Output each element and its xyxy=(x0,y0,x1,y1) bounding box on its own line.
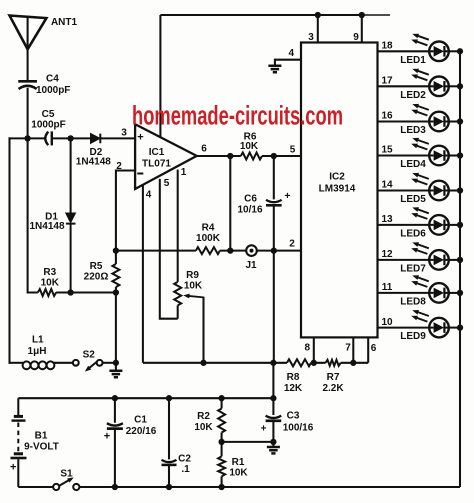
svg-text:+: + xyxy=(104,431,110,443)
capacitor C1 xyxy=(114,398,116,487)
svg-text:13: 13 xyxy=(381,214,393,225)
wire LED9 to right rail xyxy=(449,327,460,329)
node LED9 rail junction xyxy=(457,324,463,330)
node S2 ground junction xyxy=(113,360,119,366)
wire R1/R2 junction to C3 xyxy=(222,441,274,443)
potentiometer R9 xyxy=(174,282,181,305)
wire LED8 to right rail xyxy=(449,292,460,294)
svg-text:10/16: 10/16 xyxy=(237,205,262,216)
wire IC2 pin9 stub xyxy=(361,15,363,43)
svg-text:C5: C5 xyxy=(42,109,55,120)
svg-text:R4: R4 xyxy=(202,223,215,234)
svg-text:C3: C3 xyxy=(287,411,300,422)
node R9 wiper junction xyxy=(200,360,206,366)
svg-text:1N4148: 1N4148 xyxy=(76,157,111,168)
resistor R6 xyxy=(241,153,262,160)
svg-text:R9: R9 xyxy=(186,270,199,281)
node LED6 rail junction xyxy=(457,222,463,228)
svg-text:1μH: 1μH xyxy=(28,346,47,357)
capacitor C2 xyxy=(168,398,170,487)
wire op-amp V+ (pin 7) xyxy=(159,15,161,138)
node R3/R5 junction xyxy=(113,289,119,295)
svg-text:10K: 10K xyxy=(194,422,213,433)
svg-text:1000pF: 1000pF xyxy=(36,85,70,96)
node C6 top junction xyxy=(271,153,277,159)
svg-text:2: 2 xyxy=(289,239,295,250)
capacitor C5 xyxy=(45,133,47,145)
svg-text:4: 4 xyxy=(289,48,295,59)
ground below C3 xyxy=(267,447,280,453)
node LED8 rail junction xyxy=(457,290,463,296)
node pin8 junction xyxy=(311,360,317,366)
svg-text:S2: S2 xyxy=(83,350,96,361)
node C3 bottom junction xyxy=(270,439,276,445)
svg-text:220Ω: 220Ω xyxy=(84,272,109,283)
svg-text:+: + xyxy=(284,190,290,202)
node output junction xyxy=(227,153,233,159)
svg-text:homemade-circuits.com: homemade-circuits.com xyxy=(132,101,343,131)
svg-text:C4: C4 xyxy=(46,74,59,85)
svg-text:TL071: TL071 xyxy=(142,159,171,170)
svg-text:+: + xyxy=(137,132,143,144)
svg-text:B1: B1 xyxy=(35,431,48,442)
svg-text:J1: J1 xyxy=(245,260,257,271)
LED LED8 xyxy=(378,292,430,294)
svg-text:R1: R1 xyxy=(232,457,245,468)
wire op-amp pin5 xyxy=(160,179,178,319)
node C1 top xyxy=(112,395,118,401)
svg-text:L1: L1 xyxy=(32,335,44,346)
node pin7 junction xyxy=(350,360,356,366)
wire LED2 to right rail xyxy=(449,85,460,87)
svg-text:R8: R8 xyxy=(287,372,300,383)
node pin9 bus junction xyxy=(359,12,365,18)
wire R5 column to ground rail xyxy=(115,293,117,363)
diode D1 xyxy=(70,138,72,212)
wire S2 to ground node xyxy=(103,362,116,364)
svg-text:S1: S1 xyxy=(60,469,73,480)
svg-text:17: 17 xyxy=(381,76,393,87)
wire bottom bus xyxy=(18,486,460,488)
left rail wire xyxy=(8,138,10,362)
svg-text:14: 14 xyxy=(381,180,393,191)
svg-text:LED5: LED5 xyxy=(400,194,426,205)
svg-text:C2: C2 xyxy=(178,454,191,465)
svg-text:LM3914: LM3914 xyxy=(319,184,356,195)
node LED5 rail junction xyxy=(457,187,463,193)
svg-text:10K: 10K xyxy=(229,468,248,479)
node LED4 rail junction xyxy=(457,152,463,158)
svg-text:IC2: IC2 xyxy=(329,172,345,183)
LED LED6 xyxy=(378,224,430,226)
resistor R7 xyxy=(326,360,341,366)
wire LED1 to right rail xyxy=(449,50,460,52)
svg-text:6: 6 xyxy=(201,144,207,155)
node top bus junction xyxy=(315,12,321,18)
capacitor C3 xyxy=(266,416,282,418)
svg-text:LED3: LED3 xyxy=(400,125,426,136)
wire LED5 to right rail xyxy=(449,189,460,191)
svg-text:3: 3 xyxy=(121,128,127,139)
svg-text:8: 8 xyxy=(305,343,311,354)
node C3 bus junction xyxy=(270,395,276,401)
op-amp IC1 TL071 xyxy=(135,124,197,189)
wire LED3 to right rail xyxy=(449,120,460,122)
wire IC2 pin4 stub xyxy=(275,60,301,65)
svg-text:1000pF: 1000pF xyxy=(31,120,65,131)
svg-text:12: 12 xyxy=(381,249,393,260)
svg-text:11: 11 xyxy=(382,282,393,293)
svg-text:5: 5 xyxy=(290,145,296,156)
svg-text:R2: R2 xyxy=(197,411,210,422)
svg-text:100K: 100K xyxy=(196,233,221,244)
connector J1 xyxy=(246,245,257,256)
wire input node xyxy=(10,137,91,139)
node C2 top xyxy=(166,395,172,401)
svg-text:ANT1: ANT1 xyxy=(51,17,78,28)
LED LED2 xyxy=(378,85,430,87)
svg-text:LED9: LED9 xyxy=(400,331,426,342)
node C1 bottom xyxy=(112,484,118,490)
LED LED9 xyxy=(378,327,430,329)
switch S1 xyxy=(53,484,59,490)
wire IC2 pin7 stub xyxy=(352,337,354,362)
wire pin2 ground column xyxy=(273,251,275,363)
resistor R4 xyxy=(196,247,220,254)
svg-text:C1: C1 xyxy=(134,415,147,426)
node R3/D1 junction xyxy=(67,289,73,295)
wire C3 column xyxy=(272,363,274,446)
node LED2 rail junction xyxy=(457,83,463,89)
svg-text:9-VOLT: 9-VOLT xyxy=(24,442,59,453)
svg-text:1N4148: 1N4148 xyxy=(29,221,64,232)
wire IC2 pin3 stub xyxy=(317,15,319,43)
svg-text:5: 5 xyxy=(164,178,170,189)
LED LED5 xyxy=(378,189,430,191)
LED LED4 xyxy=(378,154,430,156)
svg-text:10K: 10K xyxy=(184,281,203,292)
LED LED7 xyxy=(378,259,430,261)
wire IC2 pin8 stub xyxy=(313,337,315,362)
wire top supply bus xyxy=(160,14,361,16)
svg-text:R7: R7 xyxy=(327,372,340,383)
svg-text:100/16: 100/16 xyxy=(283,423,314,434)
svg-text:+: + xyxy=(261,424,267,435)
svg-text:10: 10 xyxy=(381,317,393,328)
resistor R3 xyxy=(38,289,56,296)
ground at IC2 pin4 xyxy=(268,66,281,72)
LED LED3 xyxy=(378,120,430,122)
ground below S2 xyxy=(115,363,117,370)
svg-text:16: 16 xyxy=(381,111,393,122)
node R2/R1 junction xyxy=(218,439,224,445)
svg-text:.1: .1 xyxy=(181,464,190,475)
inductor L1 xyxy=(10,362,20,364)
svg-text:3: 3 xyxy=(308,32,314,43)
svg-text:+: + xyxy=(10,462,16,474)
svg-text:IC1: IC1 xyxy=(149,147,165,158)
svg-text:2.2K: 2.2K xyxy=(322,383,344,394)
switch S2 xyxy=(73,360,79,366)
wire right rail xyxy=(459,51,461,487)
node LED1 rail junction xyxy=(457,48,463,54)
antenna ANT1 xyxy=(10,16,47,50)
svg-text:R3: R3 xyxy=(43,267,56,278)
svg-text:C6: C6 xyxy=(244,194,257,205)
svg-text:10K: 10K xyxy=(41,278,60,289)
node: C5 left junction xyxy=(24,135,30,141)
node R4/output junction xyxy=(227,247,233,253)
node LED7 rail junction xyxy=(457,257,463,263)
resistor R8 xyxy=(287,359,311,366)
node R1 bottom xyxy=(218,484,224,490)
wire R3 line xyxy=(28,291,116,293)
svg-text:LED7: LED7 xyxy=(400,263,426,274)
wire ground rail xyxy=(143,337,368,362)
node R4 left junction xyxy=(113,247,119,253)
svg-text:LED1: LED1 xyxy=(400,55,426,66)
IC U2 LM3914 body xyxy=(301,43,378,338)
wire op-amp output pin6 xyxy=(195,155,301,157)
svg-text:12K: 12K xyxy=(284,383,303,394)
node C2 bottom xyxy=(166,484,172,490)
node LED3 rail junction xyxy=(457,118,463,124)
node J1/C6 junction xyxy=(271,247,277,253)
svg-text:18: 18 xyxy=(381,41,393,52)
svg-text:1: 1 xyxy=(181,167,187,178)
svg-text:220/16: 220/16 xyxy=(126,426,157,437)
LED LED1 xyxy=(378,50,430,52)
svg-text:LED2: LED2 xyxy=(400,90,426,101)
wire LED7 to right rail xyxy=(449,259,460,261)
wire output to pin2 net xyxy=(229,156,231,251)
svg-text:R5: R5 xyxy=(90,261,103,272)
battery B1 xyxy=(17,398,19,415)
resistor R1 xyxy=(221,442,223,487)
svg-text:15: 15 xyxy=(381,145,393,156)
node C3 rail junction xyxy=(270,360,276,366)
diode D2 xyxy=(91,133,101,143)
node R2 top xyxy=(218,395,224,401)
svg-text:4: 4 xyxy=(146,190,152,201)
resistor R5 xyxy=(115,251,117,293)
resistor R2 xyxy=(221,398,223,442)
wire LED4 to right rail xyxy=(449,154,460,156)
wire LED6 to right rail xyxy=(449,224,460,226)
capacitor C4 xyxy=(20,80,36,83)
capacitor C6 xyxy=(273,156,275,251)
wire op-amp pin4 to rail xyxy=(142,185,144,363)
svg-text:10K: 10K xyxy=(240,141,259,152)
svg-text:9: 9 xyxy=(353,32,359,43)
svg-text:7: 7 xyxy=(345,343,351,354)
svg-text:6: 6 xyxy=(371,343,377,354)
svg-text:LED4: LED4 xyxy=(400,159,426,170)
wire op-amp pin2 feedback xyxy=(116,171,135,251)
node: D1/D2 junction xyxy=(67,135,73,141)
wire R4/J1 line to IC2 pin2 xyxy=(116,250,301,252)
svg-text:LED8: LED8 xyxy=(400,296,426,307)
wire battery positive bus xyxy=(18,397,273,399)
wire op-amp pin1 to R9 xyxy=(177,170,179,319)
svg-text:LED6: LED6 xyxy=(400,228,426,239)
